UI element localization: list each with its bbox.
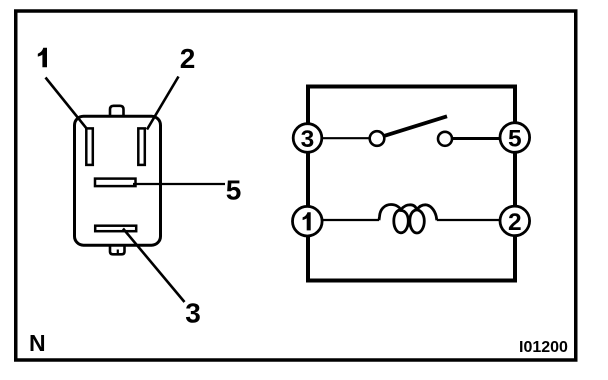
relay body	[75, 116, 161, 245]
svg-text:2: 2	[180, 43, 196, 74]
pin 5 slot	[95, 179, 136, 187]
svg-text:2: 2	[508, 209, 522, 236]
terminal circle 1	[293, 206, 323, 236]
terminal circle 2	[500, 206, 530, 236]
svg-text:5: 5	[508, 126, 522, 153]
terminal circle 5	[500, 123, 530, 153]
wire terminal 3 to switch contact	[322, 137, 369, 139]
leader line label 2	[147, 77, 179, 130]
svg-text:3: 3	[185, 298, 201, 329]
leader line label 1	[46, 78, 88, 130]
wire terminal 1 to coil	[323, 219, 380, 221]
relay bottom tab notch	[117, 250, 119, 255]
pin 3 slot	[95, 226, 136, 232]
relay top tab	[110, 106, 124, 117]
schematic box	[308, 87, 515, 281]
svg-text:N: N	[29, 330, 46, 356]
pin 2 slot	[138, 128, 145, 165]
relay bottom tab	[110, 245, 125, 255]
leader line label 3	[123, 229, 185, 303]
coil L1	[379, 205, 437, 234]
leader line label 5	[133, 183, 225, 185]
svg-text:3: 3	[301, 126, 315, 153]
svg-text:I01200: I01200	[519, 339, 568, 356]
pin 1 slot	[86, 128, 93, 165]
switch contact right	[438, 132, 452, 146]
switch arm	[385, 116, 448, 136]
wire coil to terminal 2	[437, 219, 500, 221]
wire switch contact to terminal 5	[453, 137, 501, 140]
svg-text:5: 5	[226, 175, 242, 206]
terminal circle 3	[293, 124, 322, 153]
switch contact left	[370, 131, 385, 146]
label 1	[38, 48, 47, 68]
